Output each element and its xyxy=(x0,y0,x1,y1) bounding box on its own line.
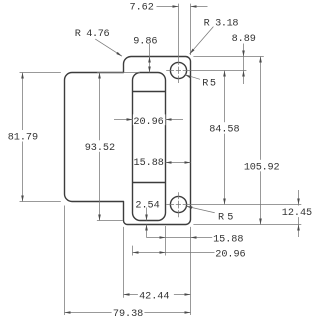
centerline hole top horizontal xyxy=(166,70,246,72)
extension line slot top left xyxy=(97,72,140,74)
extension line protrusion bottom left xyxy=(20,201,61,203)
dimension 84.58 xyxy=(208,71,242,205)
svg-text:7.62: 7.62 xyxy=(130,3,154,14)
leader R 5 bottom xyxy=(186,206,233,223)
dimension 105.92 xyxy=(242,57,282,225)
svg-text:R 5: R 5 xyxy=(202,79,216,90)
svg-text:9.86: 9.86 xyxy=(133,36,157,47)
svg-text:2.54: 2.54 xyxy=(135,201,159,212)
svg-text:81.79: 81.79 xyxy=(8,133,38,144)
svg-text:20.96: 20.96 xyxy=(215,249,245,260)
dimension 9.86 xyxy=(133,36,157,72)
hole top R5 xyxy=(170,62,186,78)
extension line flange right below xyxy=(190,227,192,315)
centerline hole bottom horizontal xyxy=(166,204,301,206)
leader R 4.76 xyxy=(75,29,122,56)
dimension 15.88 bottom xyxy=(147,235,244,246)
svg-text:15.88: 15.88 xyxy=(213,235,243,246)
extension line flange right top xyxy=(190,4,192,55)
dimension 8.89 xyxy=(232,34,256,84)
dimension 79.38 xyxy=(65,307,191,320)
svg-text:79.38: 79.38 xyxy=(113,309,143,320)
extension line slot right below xyxy=(165,226,167,256)
extension line flange top right xyxy=(193,56,263,58)
svg-text:R 5: R 5 xyxy=(218,212,233,223)
svg-text:42.44: 42.44 xyxy=(139,291,169,302)
svg-text:15.88: 15.88 xyxy=(134,158,164,169)
extension line slot bottom left xyxy=(97,220,123,222)
dimension 7.62 xyxy=(130,3,208,14)
dimension 42.44 xyxy=(124,289,191,302)
svg-text:12.45: 12.45 xyxy=(282,208,312,219)
slot lower edge line xyxy=(133,182,166,184)
dimension 15.88 middle xyxy=(134,158,191,169)
extension line flange bottom right xyxy=(193,224,301,226)
svg-text:R 3.18: R 3.18 xyxy=(204,18,239,29)
svg-text:20.96: 20.96 xyxy=(133,117,163,128)
leader R 5 top xyxy=(185,75,216,90)
dimension 2.54 xyxy=(135,201,159,238)
dimension 93.52 xyxy=(83,73,118,221)
extension line protrusion left below xyxy=(64,206,66,316)
svg-text:93.52: 93.52 xyxy=(85,143,115,154)
dimension 20.96 middle xyxy=(114,114,183,128)
svg-text:8.89: 8.89 xyxy=(232,34,256,45)
centerline hole bottom vertical xyxy=(178,192,180,217)
extension line protrusion top left xyxy=(20,72,61,74)
extension line step below xyxy=(123,227,125,298)
svg-text:R 4.76: R 4.76 xyxy=(75,29,110,40)
extension line slot left below xyxy=(132,246,134,256)
centerline hole top vertical xyxy=(178,4,180,83)
hole bottom R5 xyxy=(170,196,186,212)
dimension 12.45 xyxy=(280,190,315,237)
svg-text:84.58: 84.58 xyxy=(209,125,239,136)
slot upper edge line xyxy=(133,91,166,93)
dimension 81.79 xyxy=(6,73,43,202)
svg-text:105.92: 105.92 xyxy=(244,162,280,173)
leader R 3.18 xyxy=(190,18,239,54)
inner slot xyxy=(133,73,166,221)
part outline xyxy=(65,57,191,225)
dimension 20.96 bottom xyxy=(133,249,246,260)
